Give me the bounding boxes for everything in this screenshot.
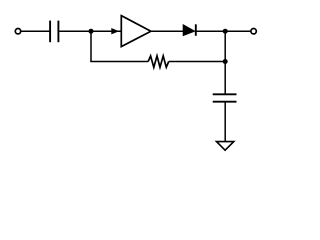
feedback wire to resistor R1 (90, 61, 148, 63)
signal arrowhead into amplifier (111, 28, 119, 34)
wire node B down to capacitor C2 (224, 31, 226, 93)
capacitor C2 top plate (213, 93, 237, 95)
junction node C dot (223, 59, 228, 64)
wire terminal to capacitor C1 (21, 30, 50, 32)
feedback wire down from node A (90, 31, 92, 61)
diode D1 anode triangle (183, 25, 194, 36)
junction node B dot (223, 29, 228, 34)
op-amp U1 buffer triangle (121, 16, 151, 47)
wire capacitor C1 to amplifier input (59, 30, 120, 32)
capacitor C1 left plate (49, 21, 51, 43)
input terminal (open circle) (15, 29, 20, 34)
wire resistor R1 to node C (169, 61, 226, 63)
wire diode to output terminal (196, 30, 251, 32)
wire capacitor C2 to ground (224, 103, 226, 142)
diode D1 cathode bar (195, 24, 197, 36)
wire amplifier output to diode D1 (152, 30, 184, 32)
capacitor C1 right plate (57, 21, 59, 43)
ground symbol (open triangle) (217, 142, 234, 151)
output terminal (open circle) (251, 29, 256, 34)
resistor R1 zigzag (148, 56, 169, 67)
capacitor C2 bottom plate (213, 101, 237, 103)
junction node A dot (89, 29, 94, 34)
